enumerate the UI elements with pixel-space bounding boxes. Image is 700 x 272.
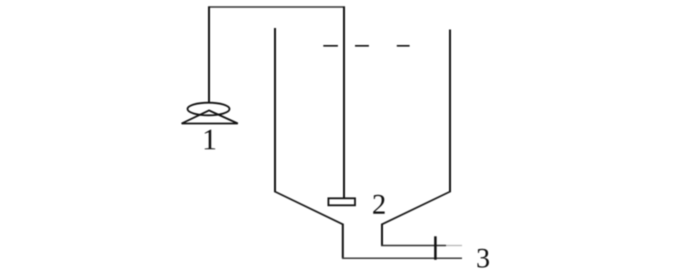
vessel left wall (274, 28, 276, 192)
outlet pipe top faint continuation (446, 245, 462, 247)
left cone slope (275, 192, 343, 225)
label 1 (205, 130, 215, 150)
vessel bottom outlet line (342, 257, 462, 259)
right neck vertical (381, 224, 383, 246)
liquid level dashes (323, 45, 409, 47)
label 3 (477, 249, 489, 268)
central pipe (drops into vessel) (343, 7, 345, 198)
diffuser 2 rectangle (328, 198, 355, 205)
inlet pipe: top horizontal run (208, 6, 345, 8)
funnel 1: bell-mouth ellipse (188, 103, 230, 116)
left neck vertical (342, 224, 344, 259)
inlet pipe: left vertical drop to funnel (208, 7, 210, 102)
vessel right wall (449, 30, 451, 193)
right cone slope (382, 192, 450, 225)
label 2 (373, 195, 384, 214)
outlet pipe top line (381, 245, 446, 247)
funnel 1: cone triangle (182, 110, 238, 123)
outlet valve tick (434, 236, 437, 259)
